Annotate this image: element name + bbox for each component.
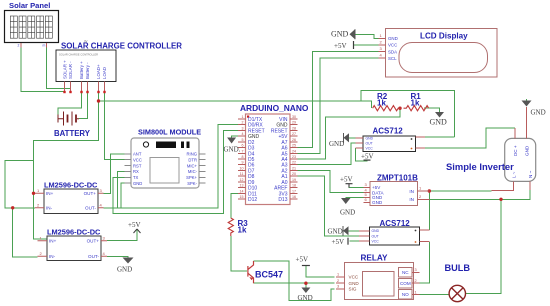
svg-text:BATTERY: BATTERY bbox=[54, 129, 91, 138]
svg-text:GND: GND bbox=[524, 145, 529, 156]
wire battery - to controller Battery- bbox=[79, 92, 88, 119]
wire left rail to LM2596 IN- pins bbox=[5, 161, 38, 258]
svg-text:SPK-: SPK- bbox=[187, 181, 197, 186]
wire SIM800L RX loop to Arduino D0/RX bbox=[118, 125, 238, 209]
svg-text:ANT: ANT bbox=[133, 152, 142, 157]
svg-text:+5V: +5V bbox=[332, 238, 345, 246]
svg-text:GND: GND bbox=[430, 118, 448, 127]
svg-text:+5V: +5V bbox=[296, 256, 309, 264]
wire Arduino A4 to R divider node bbox=[298, 108, 401, 159]
ground flag at LM2596-2 bbox=[117, 258, 134, 274]
svg-text:GND: GND bbox=[372, 229, 380, 233]
svg-text:RX: RX bbox=[133, 169, 139, 174]
svg-text:VCC: VCC bbox=[388, 43, 397, 48]
svg-text:24: 24 bbox=[292, 149, 296, 153]
current sensor ACS712 upper bbox=[356, 127, 425, 152]
svg-text:RELAY: RELAY bbox=[361, 254, 389, 263]
svg-text:9: 9 bbox=[242, 161, 244, 165]
svg-text:W: W bbox=[84, 40, 88, 44]
power +5V flag at ACS712 lower bbox=[332, 238, 349, 246]
svg-text:3: 3 bbox=[415, 268, 417, 272]
svg-text:Solar Panel: Solar Panel bbox=[9, 1, 50, 10]
wire Arduino A5 to LCD SCL bbox=[298, 58, 379, 153]
power +5V flag at ACS712 upper bbox=[361, 153, 374, 161]
svg-text:SIM800L MODULE: SIM800L MODULE bbox=[138, 128, 201, 137]
lamp BULB bbox=[445, 263, 471, 302]
node emitter GND junction bbox=[304, 282, 307, 285]
wire Arduino A2 to ZMPT DATA bbox=[298, 170, 364, 192]
svg-text:N ~: N ~ bbox=[528, 170, 533, 178]
svg-text:GND: GND bbox=[329, 140, 344, 148]
svg-text:28: 28 bbox=[292, 126, 296, 130]
svg-text:BC547: BC547 bbox=[255, 270, 283, 280]
svg-text:D12: D12 bbox=[248, 197, 257, 203]
ground flag at R1 bbox=[430, 112, 448, 127]
svg-text:LOAD: LOAD bbox=[102, 67, 107, 79]
svg-text:Battery +: Battery + bbox=[79, 61, 84, 79]
svg-text:VCC: VCC bbox=[366, 147, 374, 151]
wire Arduino GND pin to ground bbox=[232, 136, 238, 137]
svg-text:1k: 1k bbox=[377, 99, 386, 108]
svg-text:+5V: +5V bbox=[334, 42, 347, 50]
wire ZMPT +5V pin bbox=[349, 185, 364, 188]
svg-text:5: 5 bbox=[242, 138, 244, 142]
module U5 SIM800L bbox=[125, 128, 206, 189]
svg-text:29: 29 bbox=[292, 121, 296, 125]
node ZMPT IN2 junction bbox=[499, 198, 502, 201]
wire controller LOAD+ rail to R2 top rail bbox=[99, 91, 455, 137]
svg-text:1: 1 bbox=[242, 115, 244, 119]
wire Arduino A1 to ACS712-2 OUT bbox=[298, 176, 360, 236]
svg-text:18: 18 bbox=[292, 184, 296, 188]
svg-text:GND: GND bbox=[349, 281, 360, 286]
svg-text:GND: GND bbox=[331, 30, 349, 39]
svg-text:14: 14 bbox=[240, 189, 244, 193]
svg-text:MIC-: MIC- bbox=[188, 169, 198, 174]
svg-text:VCC: VCC bbox=[133, 157, 142, 162]
svg-text:15: 15 bbox=[240, 195, 244, 199]
svg-text:NO: NO bbox=[402, 292, 409, 297]
lcd display DS1 bbox=[379, 29, 498, 78]
svg-text:2: 2 bbox=[242, 121, 244, 125]
current sensor ACS712 lower bbox=[359, 219, 429, 245]
svg-text:SOLAR -: SOLAR - bbox=[68, 61, 73, 79]
wire bulb to ZMPT IN2 node bbox=[466, 199, 502, 293]
svg-text:+5V: +5V bbox=[128, 221, 141, 229]
svg-text:LM2596-DC-DC: LM2596-DC-DC bbox=[47, 228, 101, 237]
svg-text:2: 2 bbox=[415, 279, 417, 283]
svg-text:21: 21 bbox=[292, 166, 296, 170]
svg-text:7: 7 bbox=[242, 149, 244, 153]
svg-text:GND: GND bbox=[372, 200, 383, 205]
svg-text:NC: NC bbox=[402, 270, 409, 275]
svg-text:13: 13 bbox=[240, 184, 244, 188]
svg-text:DC +: DC + bbox=[513, 145, 518, 156]
svg-text:TX: TX bbox=[133, 175, 139, 180]
svg-text:LOAD+: LOAD+ bbox=[96, 64, 101, 79]
resistor R1 bbox=[404, 92, 429, 111]
svg-text:GND: GND bbox=[366, 136, 374, 140]
wire Arduino A6 to LCD SDA bbox=[298, 52, 379, 148]
ground flag at LCD bbox=[331, 29, 355, 39]
svg-text:Battery -: Battery - bbox=[85, 62, 90, 79]
svg-text:D13: D13 bbox=[278, 197, 287, 203]
wire R2 elbow from rail bbox=[361, 101, 372, 108]
svg-text:10: 10 bbox=[240, 166, 244, 170]
wire inverter GND stem bbox=[526, 99, 528, 102]
svg-text:25: 25 bbox=[292, 144, 296, 148]
svg-text:8: 8 bbox=[242, 155, 244, 159]
node LOAD+ junction bbox=[97, 99, 100, 102]
power +5V flag at LM2596-2 bbox=[128, 221, 141, 233]
transistor Q1 BC547 bbox=[248, 261, 283, 283]
ground flag at relay bbox=[298, 288, 313, 303]
svg-text:COM: COM bbox=[400, 281, 411, 286]
wire ACS712-1 right pin1 to rail bbox=[425, 136, 455, 138]
svg-text:19: 19 bbox=[292, 178, 296, 182]
relay K1 bbox=[336, 254, 420, 300]
wire BC547 emitter to relay GND bbox=[254, 282, 335, 284]
resistor R3 bbox=[228, 218, 248, 236]
wire LCD VCC to +5V bbox=[354, 44, 379, 46]
svg-text:m: m bbox=[43, 44, 46, 48]
wire BC547 collector loop to relay SIG bbox=[254, 261, 335, 301]
svg-text:OUT+: OUT+ bbox=[84, 191, 97, 196]
svg-text:IN: IN bbox=[409, 189, 414, 194]
svg-text:VCC: VCC bbox=[349, 275, 359, 280]
power +5V flag at LCD bbox=[334, 41, 354, 50]
power +5V flag at relay bbox=[296, 256, 310, 266]
svg-text:SOLAR CHARGE CONTROLLER: SOLAR CHARGE CONTROLLER bbox=[59, 53, 98, 57]
svg-text:IN+: IN+ bbox=[49, 239, 57, 244]
wire controller Battery+ to battery bbox=[58, 92, 82, 116]
svg-text:VCC: VCC bbox=[372, 240, 380, 244]
svg-text:RST: RST bbox=[133, 163, 142, 168]
svg-text:1: 1 bbox=[337, 273, 339, 277]
svg-text:26: 26 bbox=[292, 138, 296, 142]
svg-text:OUT-: OUT- bbox=[88, 254, 99, 259]
svg-text:30: 30 bbox=[292, 115, 296, 119]
svg-text:20: 20 bbox=[292, 172, 296, 176]
solar charge controller U2 bbox=[56, 40, 182, 94]
svg-text:4: 4 bbox=[242, 132, 244, 136]
wire ACS712-1 right pin2 to inverter DC+ bbox=[425, 128, 515, 148]
svg-text:GND.: GND. bbox=[224, 146, 241, 154]
solar panel PV1 bbox=[5, 1, 59, 48]
wire Arduino A3 to ACS712-1 OUT bbox=[298, 143, 356, 165]
wire ACS712-2 VCC to +5V bar bbox=[350, 240, 360, 242]
svg-text:IN+: IN+ bbox=[46, 191, 54, 196]
resistor R2 bbox=[373, 92, 401, 111]
svg-text:LCD Display: LCD Display bbox=[420, 32, 468, 41]
ground flag at inverter bbox=[522, 101, 546, 117]
svg-text:RING: RING bbox=[187, 152, 197, 157]
wire LM2596-2 OUT- to GND bbox=[107, 256, 128, 257]
svg-text:SOLAR CHARGE CONTROLLER: SOLAR CHARGE CONTROLLER bbox=[61, 42, 182, 51]
wire +5V to relay VCC bbox=[306, 266, 335, 277]
svg-text:3: 3 bbox=[242, 126, 244, 130]
svg-text:IN-: IN- bbox=[46, 206, 53, 211]
svg-text:GND: GND bbox=[388, 36, 398, 41]
wire R1 to ground bbox=[424, 108, 440, 112]
wire R3 to BC547 base bbox=[231, 236, 247, 271]
svg-text:22: 22 bbox=[292, 161, 296, 165]
wire ACS712-1 VCC to +5V bbox=[356, 148, 368, 161]
svg-text:1: 1 bbox=[415, 290, 417, 294]
node LM1 IN- junction bbox=[11, 206, 14, 209]
inverter simple inverter bbox=[446, 107, 536, 191]
wire ZMPT IN2 to inverter N bbox=[429, 190, 530, 200]
svg-text:GND: GND bbox=[133, 181, 142, 186]
regulator U3 LM2596-DC-DC bbox=[35, 181, 104, 214]
svg-text:SCL: SCL bbox=[388, 56, 397, 61]
svg-text:SDA: SDA bbox=[388, 49, 397, 54]
regulator U4 LM2596-DC-DC bbox=[38, 228, 108, 261]
svg-text:2: 2 bbox=[18, 44, 20, 48]
svg-text:17: 17 bbox=[292, 189, 296, 193]
svg-text:OUT+: OUT+ bbox=[87, 239, 100, 244]
svg-text:OUT: OUT bbox=[372, 234, 379, 238]
wire LM2596-1 OUT- to SIM800L GND bbox=[104, 183, 125, 208]
svg-text:ACS712: ACS712 bbox=[373, 127, 404, 136]
svg-text:GND: GND bbox=[531, 109, 546, 117]
svg-text:MIC+: MIC+ bbox=[187, 163, 198, 168]
ground flag at Arduino GND pin bbox=[224, 138, 241, 154]
wire ZMPT GND pin to ground bbox=[346, 197, 364, 199]
node R divider junction bbox=[398, 107, 401, 110]
svg-text:IN: IN bbox=[409, 197, 414, 202]
mcu U1 ARDUINO_NANO bbox=[238, 103, 309, 205]
wire LOAD+ branch down to LM2596 inputs bbox=[34, 101, 99, 239]
svg-text:GND: GND bbox=[328, 228, 343, 236]
ground flag at ACS712 lower bbox=[328, 226, 349, 236]
svg-text:1k: 1k bbox=[238, 226, 247, 235]
svg-text:3: 3 bbox=[337, 285, 339, 289]
svg-text:ARDUINO_NANO: ARDUINO_NANO bbox=[240, 103, 309, 113]
wire Arduino D11 to R3 bbox=[231, 193, 238, 218]
svg-text:IN-: IN- bbox=[49, 254, 56, 259]
voltage sensor U6 ZMPT101B bbox=[364, 174, 430, 206]
wire solar panel + to controller SOLAR+ bbox=[21, 48, 65, 92]
svg-text:2: 2 bbox=[337, 279, 339, 283]
svg-text:SIG: SIG bbox=[349, 287, 357, 292]
svg-text:GND: GND bbox=[117, 266, 132, 274]
battery BT1 bbox=[54, 112, 91, 139]
node ZMPT IN1 junction bbox=[428, 189, 431, 192]
svg-text:SOLAR +: SOLAR + bbox=[63, 60, 68, 79]
wire LM2596-2 OUT+ to +5V bbox=[107, 229, 137, 241]
wire LCD GND to ground flag bbox=[354, 34, 379, 38]
ground flag at ACS712 upper bbox=[329, 133, 349, 148]
svg-text:6: 6 bbox=[242, 144, 244, 148]
svg-text:27: 27 bbox=[292, 132, 296, 136]
svg-text:DTR: DTR bbox=[188, 157, 197, 162]
wire ground stem at relay bbox=[305, 283, 307, 287]
svg-text:12: 12 bbox=[240, 178, 244, 182]
wire solar panel - to controller SOLAR- bbox=[47, 48, 71, 92]
svg-text:+5V: +5V bbox=[361, 153, 374, 161]
svg-text:GND: GND bbox=[298, 294, 313, 302]
svg-text:23: 23 bbox=[292, 155, 296, 159]
svg-text:OUT: OUT bbox=[366, 141, 373, 145]
svg-text:BULB: BULB bbox=[445, 263, 471, 273]
wire relay COM to ACS712-2 pin2 bbox=[420, 242, 430, 283]
svg-text:LM2596-DC-DC: LM2596-DC-DC bbox=[44, 181, 98, 190]
svg-text:OUT-: OUT- bbox=[85, 206, 96, 211]
wire branch to LM2596-1 IN+ bbox=[34, 192, 36, 194]
wire ACS712-1 GND to ground flag bbox=[349, 137, 356, 139]
svg-text:L ~: L ~ bbox=[511, 171, 516, 178]
wire controller LOAD down to SIM VCC bbox=[105, 92, 125, 160]
wire ACS712-2 GND to ground flag bbox=[349, 230, 360, 232]
wire SIM800L TX loop to Arduino RESET bbox=[113, 130, 238, 213]
wire LM2596-1 OUT+ up to SIM800L ANT row bbox=[104, 154, 125, 193]
ground flag at ZMPT bbox=[340, 198, 355, 217]
svg-text:GND: GND bbox=[340, 209, 355, 217]
svg-text:+5V: +5V bbox=[340, 176, 353, 184]
wire relay NO to bulb bbox=[420, 294, 450, 296]
power +5V flag at ZMPT bbox=[340, 176, 353, 188]
svg-text:11: 11 bbox=[240, 172, 244, 176]
svg-text:SPK+: SPK+ bbox=[186, 175, 197, 180]
wire ZMPT IN1 to inverter L and ACS712-2 pin1 bbox=[429, 191, 491, 230]
svg-text:Simple Inverter: Simple Inverter bbox=[446, 161, 514, 172]
svg-text:16: 16 bbox=[292, 195, 296, 199]
node LM1 IN+ junction bbox=[32, 192, 35, 195]
